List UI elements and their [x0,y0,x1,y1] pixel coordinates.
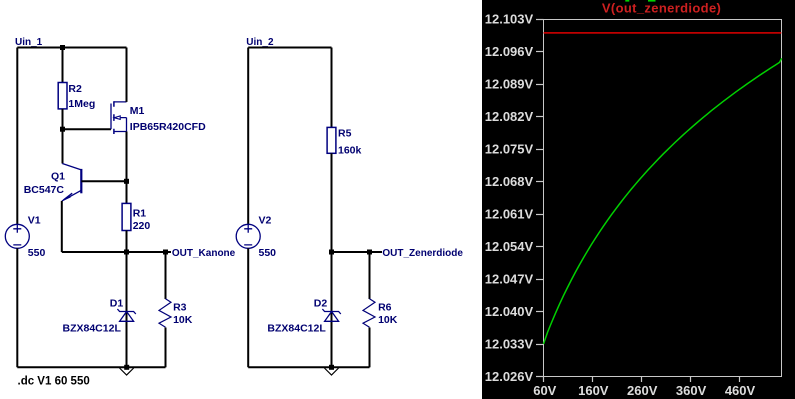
label BC547C [24,184,65,196]
label R3 [173,302,187,314]
wire R2 top [62,48,64,83]
y tick 12.061V [485,207,544,222]
y tick 12.040V [485,304,544,319]
label 10K (R3) [173,314,193,326]
wire node A to R1 [126,181,128,203]
ground symbol right circuit [324,365,338,375]
trace V(out_kanone) red flat line [544,32,782,34]
svg-text:12.040V: 12.040V [485,304,534,319]
svg-text:550: 550 [259,247,277,259]
wire OUT node to R6 [332,251,383,253]
resistor R6 zigzag [363,299,375,328]
label 160k [338,144,362,156]
label 550 (V2 value) [259,247,277,259]
svg-text:IPB65R420CFD: IPB65R420CFD [130,121,206,133]
svg-text:160V: 160V [578,383,609,398]
y tick 12.033V [485,337,544,352]
resistor R2 [58,83,67,109]
resistor R3 zigzag [159,299,171,328]
x tick 360V [676,377,707,398]
y tick 12.068V [485,174,544,189]
y tick 12.075V [485,142,544,157]
label Q1 [51,171,65,183]
svg-text:360V: 360V [676,383,707,398]
label D1 [110,298,124,310]
svg-text:12.096V: 12.096V [485,44,534,59]
wire left rail V1 top [16,48,18,225]
svg-text:BC547C: BC547C [24,184,65,196]
junction gate node [60,127,65,132]
wire top rail down to R5 [331,48,333,128]
svg-text:220: 220 [133,220,151,232]
svg-text:12.089V: 12.089V [485,77,534,92]
wire M1 source down to node A [126,132,128,182]
svg-text:OUT_Kanone: OUT_Kanone [172,248,236,259]
svg-text:V2: V2 [259,215,272,227]
zener diode D1 [117,309,135,321]
svg-text:12.103V: 12.103V [485,12,534,27]
label D2 [314,298,328,310]
svg-text:R6: R6 [378,302,392,314]
svg-text:12.054V: 12.054V [485,239,534,254]
label R5 [338,127,352,139]
voltage source V1 [5,224,29,248]
y tick 12.082V [485,109,544,124]
transistor Q1 [62,164,81,201]
svg-text:12.075V: 12.075V [485,142,534,157]
wire V2 bottom to ground rail [247,248,249,367]
svg-text:Uin_1: Uin_1 [15,37,43,48]
y tick 12.103V [485,12,544,27]
svg-text:460V: 460V [725,383,756,398]
svg-text:260V: 260V [627,383,658,398]
voltage source V2 [236,224,260,248]
wire M1 drain up to top rail [126,48,128,102]
x tick 460V [725,377,756,398]
label 550 (V1 value) [28,247,46,259]
ground symbol left circuit [120,365,134,375]
wire OUT_Kanone line [62,251,171,253]
y tick 12.026V [485,369,544,384]
mosfet M1 [111,101,127,134]
resistor R5 [327,127,336,153]
wire OUT to R3 [165,252,167,299]
svg-text:R3: R3 [173,302,187,314]
wire OUT through D1 to bottom rail [126,252,128,367]
label M1 [130,105,145,117]
trace V(out_zenerdiode) green curve [544,58,782,344]
label R2 [68,83,82,95]
wire OUT through D2 to bottom rail [331,252,333,367]
wire bottom rail left circuit [17,366,165,368]
svg-text:R1: R1 [133,207,147,219]
svg-text:12.082V: 12.082V [485,109,534,124]
trace fragment green top 1 [625,0,629,2]
wire left rail to V2 [247,48,249,225]
junction OUT_Zenerdiode at D2 [329,250,334,255]
resistor R1 [122,203,131,230]
svg-text:12.068V: 12.068V [485,174,534,189]
wire Q1 emitter down [61,201,63,252]
svg-text:D1: D1 [110,298,124,310]
junction top of R2 [60,45,65,50]
wire bottom rail right circuit [248,366,369,368]
svg-text:Q1: Q1 [51,171,65,183]
plot title V(out_zenerdiode) [602,1,721,16]
wire R1 bottom to OUT line [126,231,128,253]
node Uin_2 label [246,37,274,48]
node Uin_1 label [15,37,43,48]
y tick 12.054V [485,239,544,254]
label BZX84C12L (D1) [63,323,122,335]
zener diode D2 [322,309,340,321]
wire R5 bottom to OUT node [331,153,333,252]
label R1 [133,207,147,219]
svg-text:OUT_Zenerdiode: OUT_Zenerdiode [382,248,463,259]
svg-text:D2: D2 [314,298,328,310]
svg-text:R2: R2 [68,83,82,95]
svg-text:60V: 60V [533,383,556,398]
label IPB65R420CFD [130,121,206,133]
junction OUT_Zenerdiode at R6 [367,250,372,255]
wire OUT to R6 top [369,252,371,299]
trace fragment green top 2 [648,0,656,2]
svg-text:.dc V1 60 550: .dc V1 60 550 [18,376,90,388]
wire R3 bottom to rail [165,328,167,368]
junction OUT at R3 [163,250,168,255]
wire V1 bottom to ground rail [16,248,18,367]
svg-text:10K: 10K [173,314,193,326]
wire gate node to M1 gate [63,128,112,130]
y tick 12.096V [485,44,544,59]
svg-text:12.033V: 12.033V [485,337,534,352]
label BZX84C12L (D2) [267,322,326,334]
label 1Meg [68,98,95,110]
junction OUT at R1 [124,250,129,255]
label V1 [28,215,41,227]
svg-text:Uin_2: Uin_2 [246,37,274,48]
svg-text:160k: 160k [338,144,362,156]
svg-text:V(out_zenerdiode): V(out_zenerdiode) [602,1,721,16]
svg-text:BZX84C12L: BZX84C12L [63,323,122,335]
svg-text:12.061V: 12.061V [485,207,534,222]
wire R6 bottom to rail [369,328,371,368]
svg-text:550: 550 [28,247,46,259]
svg-text:12.047V: 12.047V [485,272,534,287]
wire top rail right circuit [248,47,331,49]
svg-text:1Meg: 1Meg [68,98,95,110]
junction node A [124,179,129,184]
svg-text:10K: 10K [378,314,398,326]
x tick 260V [627,377,658,398]
node OUT_Kanone label [172,248,236,259]
label V2 [259,215,272,227]
x tick 160V [578,377,609,398]
label R6 [378,302,392,314]
label 220 [133,220,151,232]
wire top rail left circuit [17,47,126,49]
plot border [544,20,782,377]
svg-text:BZX84C12L: BZX84C12L [267,322,326,334]
node OUT_Zenerdiode label [382,248,463,259]
label 10K (R6) [378,314,398,326]
svg-text:R5: R5 [338,127,352,139]
spice directive .dc [18,376,90,388]
svg-text:V1: V1 [28,215,41,227]
y tick 12.089V [485,77,544,92]
svg-text:M1: M1 [130,105,145,117]
x tick 60V [533,377,556,398]
wire gate node down to Q1 collector [62,129,64,163]
wire R2 bottom to gate node [62,109,64,129]
wire Q1 base to node A [81,180,126,182]
svg-text:12.026V: 12.026V [485,369,534,384]
y tick 12.047V [485,272,544,287]
